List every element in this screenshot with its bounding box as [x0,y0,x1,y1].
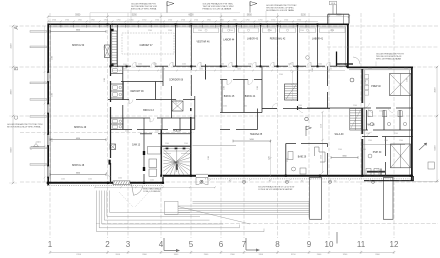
svg-text:6600: 6600 [10,147,12,153]
svg-text:8: 8 [275,240,280,249]
svg-text:LABOR 43: LABOR 43 [247,38,259,41]
svg-text:3650: 3650 [76,173,80,175]
svg-text:2100: 2100 [153,64,157,66]
svg-text:WC 28: WC 28 [367,125,375,127]
svg-text:2100: 2100 [148,30,152,32]
svg-text:2110: 2110 [321,124,323,128]
svg-text:SALA 39: SALA 39 [335,133,345,136]
svg-text:2100: 2100 [407,78,409,82]
svg-text:6000: 6000 [188,15,194,17]
svg-text:2100: 2100 [404,68,408,70]
svg-text:2100: 2100 [184,143,188,145]
svg-text:2: 2 [105,240,110,249]
svg-text:1750: 1750 [65,20,69,22]
svg-text:CAM 13: CAM 13 [132,143,141,146]
svg-text:1750: 1750 [142,20,146,22]
svg-text:2000: 2000 [336,15,342,17]
svg-text:+0,15: +0,15 [35,142,41,144]
grid axes [49,13,51,238]
top dimension rows [48,16,349,18]
svg-text:3: 3 [126,240,131,249]
svg-text:2100: 2100 [300,30,304,32]
svg-text:COTELE SE VOR VERIFICA PE SANT: COTELE SE VOR VERIFICA PE SANTIER [258,188,293,191]
svg-text:350: 350 [269,180,272,182]
svg-text:10: 10 [325,240,334,249]
svg-text:1450: 1450 [237,69,241,71]
lab benches [193,28,219,33]
svg-text:2100: 2100 [118,178,122,180]
columns [107,23,109,25]
svg-text:2100: 2100 [52,93,54,97]
svg-text:CABINET 47: CABINET 47 [139,44,153,47]
svg-text:2100: 2100 [268,30,272,32]
svg-text:2100: 2100 [318,64,322,66]
svg-text:2100: 2100 [287,158,289,162]
svg-text:BIROU 44: BIROU 44 [245,96,256,98]
svg-text:SPATIUL 48: SPATIUL 48 [72,164,85,167]
svg-text:EXECUTA CF SPEC FIRMA: EXECUTA CF SPEC FIRMA [131,8,157,11]
svg-text:1750: 1750 [233,20,237,22]
svg-text:1750: 1750 [207,20,211,22]
svg-text:9: 9 [307,240,312,249]
svg-text:350: 350 [334,180,337,182]
svg-text:1750: 1750 [117,20,121,22]
svg-text:SPEC DE FIRMA LA TAVAN: SPEC DE FIRMA LA TAVAN [376,58,402,61]
svg-text:1: 1 [48,240,53,249]
svg-text:C: C [14,116,20,120]
corridor stair right wing [350,109,362,131]
svg-text:5050: 5050 [250,139,254,141]
interior dims [50,30,106,32]
svg-text:2100: 2100 [330,30,334,32]
svg-text:2100: 2100 [168,30,172,32]
svg-text:TERASA 35: TERASA 35 [250,133,263,136]
svg-text:B: B [14,67,20,71]
svg-text:1750: 1750 [104,20,108,22]
svg-text:1750: 1750 [297,20,301,22]
svg-text:DE FIRMA CU GOLURI TAVAN: DE FIRMA CU GOLURI TAVAN [266,9,294,12]
svg-text:350: 350 [369,180,372,182]
svg-text:4: 4 [159,240,164,249]
svg-text:2100: 2100 [338,149,342,151]
bathroom fixtures [368,111,372,117]
svg-text:4100: 4100 [10,43,12,49]
svg-text:350: 350 [399,180,402,182]
svg-text:CORIDOR 08: CORIDOR 08 [169,80,184,82]
svg-text:5650: 5650 [247,15,253,17]
svg-text:2100: 2100 [52,138,54,142]
svg-text:1750: 1750 [91,20,95,22]
svg-text:TEVI SE VOR EXECUTA CF SPEC: TEVI SE VOR EXECUTA CF SPEC [203,5,235,8]
svg-text:1450: 1450 [123,69,127,71]
svg-text:2100: 2100 [155,131,159,133]
svg-text:1750: 1750 [246,20,250,22]
svg-text:1750: 1750 [78,20,82,22]
svg-text:4900: 4900 [10,89,12,95]
svg-text:1200: 1200 [384,140,388,142]
svg-text:1750: 1750 [271,20,275,22]
svg-text:HOL 14: HOL 14 [173,131,182,133]
terrace columns [310,178,322,220]
svg-text:1750: 1750 [181,20,185,22]
svg-text:DEPOZIT 09: DEPOZIT 09 [130,91,144,93]
interior walls [110,24,112,77]
svg-text:2100: 2100 [353,105,357,107]
secondary stair [285,84,298,100]
svg-text:3050: 3050 [342,156,346,158]
svg-text:2100: 2100 [366,133,370,135]
right dimension column [436,67,438,181]
svg-text:2100: 2100 [220,64,224,66]
svg-text:2100: 2100 [394,133,398,135]
svg-text:2100: 2100 [379,111,383,113]
left dimension column [12,26,14,183]
canopy line [90,12,240,14]
svg-text:1750: 1750 [194,20,198,22]
door arcs [135,62,137,66]
svg-text:2100: 2100 [362,149,366,151]
svg-text:2100: 2100 [223,106,227,108]
svg-text:GOLURI PREVAZUTE PTR: GOLURI PREVAZUTE PTR [131,2,156,5]
svg-text:2100: 2100 [224,86,226,90]
radiator shaft [112,31,117,64]
svg-text:2100: 2100 [125,131,129,133]
svg-text:6: 6 [219,240,224,249]
svg-text:2100: 2100 [61,179,65,181]
svg-text:350: 350 [301,180,304,182]
svg-text:2100: 2100 [104,78,106,82]
facade fins [30,31,47,33]
svg-text:1450: 1450 [328,69,332,71]
terrace steps [165,201,179,214]
drainage circles [200,180,203,183]
svg-text:2100: 2100 [104,46,106,50]
svg-text:2100: 2100 [111,64,115,66]
svg-text:2100: 2100 [388,68,392,70]
svg-text:1750: 1750 [155,20,159,22]
svg-text:FIRMA CU GOLURI LA TAVANE: FIRMA CU GOLURI LA TAVANE [203,8,232,11]
svg-text:GOLURI PREVAZUTE PTR TREC: GOLURI PREVAZUTE PTR TREC [266,4,297,7]
survey flags [166,2,168,13]
main stair [163,149,175,162]
svg-text:1450: 1450 [295,69,299,71]
counters [148,147,161,155]
svg-text:2100: 2100 [368,68,372,70]
svg-text:1450: 1450 [199,69,203,71]
svg-text:5: 5 [189,240,194,249]
svg-text:SPATIUL 50: SPATIUL 50 [72,44,85,47]
svg-text:2100: 2100 [229,30,233,32]
svg-text:2100: 2100 [257,86,259,90]
svg-text:2100: 2100 [165,143,169,145]
svg-text:1750: 1750 [129,20,133,22]
svg-text:2100: 2100 [298,105,302,107]
svg-text:2100: 2100 [138,64,142,66]
svg-text:PSIH 30: PSIH 30 [373,152,382,154]
svg-text:GOLURI PREVAZUTE PTR TREC: GOLURI PREVAZUTE PTR TREC [203,2,234,5]
svg-text:TEVI SE VOR EXECUTA CF: TEVI SE VOR EXECUTA CF [376,55,402,58]
svg-text:1750: 1750 [284,20,288,22]
svg-text:2100: 2100 [248,64,252,66]
svg-text:1750: 1750 [220,20,224,22]
svg-text:3400: 3400 [269,156,271,160]
svg-text:COTA +0,15 FATA DE: COTA +0,15 FATA DE [143,190,161,193]
svg-text:2100: 2100 [312,68,314,72]
svg-text:2100: 2100 [123,64,127,66]
svg-text:BIROU 45: BIROU 45 [224,96,235,98]
svg-text:PERSONAL 42: PERSONAL 42 [270,38,286,41]
svg-text:5150: 5150 [301,15,307,17]
svg-text:SPATIUL 49: SPATIUL 49 [74,126,87,129]
svg-text:2100: 2100 [208,156,210,160]
svg-text:PREP 40: PREP 40 [371,86,381,88]
svg-text:5350: 5350 [132,15,138,17]
svg-text:2100: 2100 [88,179,92,181]
svg-text:3650: 3650 [76,30,80,32]
svg-text:SE VOR EXECUTA CF SPEC FIRMA: SE VOR EXECUTA CF SPEC FIRMA [7,126,41,129]
svg-text:2350: 2350 [321,155,323,159]
svg-text:BIROU 13: BIROU 13 [143,110,154,112]
svg-text:VESTIAR 46: VESTIAR 46 [196,41,210,44]
svg-text:1200: 1200 [368,140,372,142]
svg-text:A: A [14,26,20,30]
svg-text:LABOR 41: LABOR 41 [312,38,324,41]
svg-text:LABOR 44: LABOR 44 [223,39,235,42]
svg-text:2100: 2100 [365,80,367,84]
sanitary block [111,73,123,75]
bottom dimension line [50,251,394,253]
svg-text:2100: 2100 [279,74,283,76]
svg-text:11: 11 [357,240,366,249]
svg-text:GOLURI PREVAZUTE PTR TR: GOLURI PREVAZUTE PTR TR [376,53,404,56]
svg-text:2100: 2100 [150,180,154,182]
svg-text:GOLURI PREVAZUTE PTR TREC TEVI: GOLURI PREVAZUTE PTR TREC TEVI [7,123,43,126]
svg-text:4950: 4950 [76,138,80,140]
section markers [163,238,165,251]
wardrobe X braces [390,74,412,96]
svg-text:1750: 1750 [258,20,262,22]
svg-text:2100: 2100 [182,64,186,66]
svg-text:6200: 6200 [435,145,437,151]
svg-text:2100: 2100 [288,64,292,66]
svg-text:2100: 2100 [340,64,344,66]
exterior walls [48,23,349,25]
svg-text:350: 350 [229,180,232,182]
svg-text:1750: 1750 [52,20,56,22]
NE chimney bay [330,1,337,5]
svg-text:1750: 1750 [168,20,172,22]
level mark [31,146,45,148]
svg-text:12: 12 [390,240,399,249]
svg-text:2100: 2100 [243,106,247,108]
svg-text:BAIE 29: BAIE 29 [298,156,307,159]
svg-text:1450: 1450 [161,69,165,71]
svg-text:2100: 2100 [198,30,202,32]
svg-text:5950: 5950 [75,15,81,17]
svg-text:2100: 2100 [52,56,54,60]
svg-text:1200: 1200 [399,140,403,142]
svg-text:4500: 4500 [435,87,437,93]
